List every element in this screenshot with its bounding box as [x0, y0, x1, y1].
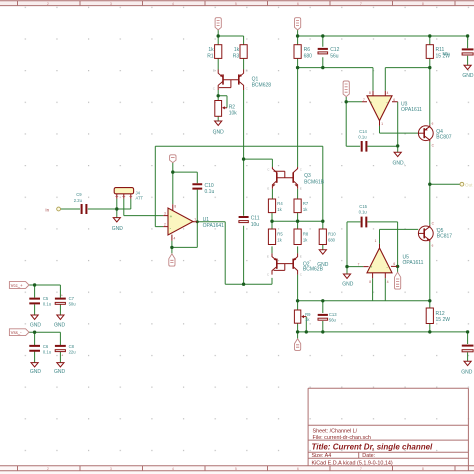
wire C15 right column to U5 inverting input	[367, 222, 397, 272]
svg-text:1k: 1k	[234, 47, 240, 53]
wire C16 bottom stub	[467, 56, 469, 65]
junction dots supply mid rail	[296, 66, 432, 69]
svg-text:C6: C6	[43, 344, 49, 349]
wire R2 bottom to GND	[217, 116, 219, 121]
svg-text:GND: GND	[54, 322, 66, 328]
svg-text:R9: R9	[305, 312, 311, 317]
svg-text:KiCad E.D.A kicad (5.1.9-0-10: KiCad E.D.A kicad (5.1.9-0-10,14)	[312, 461, 393, 467]
capacitor C17 electrolytic	[462, 346, 474, 352]
svg-text:GND: GND	[462, 73, 474, 79]
wire Q3 right collector column	[297, 68, 299, 167]
wire Q1B collector long column through C11	[243, 90, 245, 284]
svg-text:2: 2	[47, 2, 49, 6]
svg-text:C7: C7	[69, 296, 75, 301]
svg-text:GND: GND	[30, 322, 42, 328]
svg-text:1: 1	[194, 218, 196, 222]
sheet border right inner line (title block area)	[467, 388, 469, 471]
svg-text:BCM62B: BCM62B	[303, 267, 324, 273]
wire Q3 bases branch	[244, 159, 273, 167]
wire C6 bottom to GND	[34, 352, 36, 363]
svg-text:OPA1641: OPA1641	[203, 223, 225, 229]
SECTION:WIRES	[29, 30, 470, 363]
svg-text:4: 4	[172, 467, 174, 471]
svg-text:BC817: BC817	[437, 233, 453, 239]
SECTION:TITLEBLOCK	[308, 388, 468, 466]
resistor R7	[294, 199, 309, 213]
title block row line above Sheet	[308, 424, 468, 426]
capacitor C16 electrolytic	[443, 49, 474, 56]
title block row line above Title	[308, 439, 468, 441]
capacitor C12 electrolytic	[318, 47, 340, 59]
svg-text:R6: R6	[304, 47, 311, 53]
wire bottom rail label stub	[297, 332, 299, 339]
wire U3 inverting input column	[397, 102, 399, 147]
resistor R4	[268, 199, 283, 213]
svg-text:GND: GND	[54, 369, 66, 375]
svg-text:7: 7	[358, 263, 360, 267]
capacitor C14	[358, 129, 367, 152]
resistor R11	[426, 45, 450, 60]
resistor R5	[268, 229, 283, 245]
svg-text:680: 680	[328, 237, 336, 242]
junction dot COut node	[428, 183, 431, 186]
wire R10 top stub	[322, 221, 324, 229]
title block row line above KiCad	[308, 457, 468, 459]
sheet border top inner line	[0, 5, 474, 7]
transistor Q1 dual PNP pair	[213, 69, 271, 91]
svg-text:C14: C14	[359, 129, 367, 134]
svg-text:0.1u: 0.1u	[205, 189, 215, 195]
ground below C6	[30, 363, 42, 376]
wire C10 decoupling column	[196, 172, 198, 247]
svg-text:C8: C8	[69, 344, 75, 349]
wire V+ top rail left segment	[218, 30, 243, 45]
svg-text:56u: 56u	[329, 318, 337, 323]
junction dots VAS mid rail	[242, 220, 325, 286]
wire C7 bottom to GND	[59, 304, 61, 315]
svg-text:56u: 56u	[330, 53, 339, 59]
junction dot mirror node	[217, 94, 246, 161]
wire R9 bottom stub	[297, 323, 299, 332]
svg-text:8: 8	[174, 204, 176, 208]
svg-text:C11: C11	[251, 216, 260, 222]
svg-text:R4: R4	[277, 201, 283, 206]
ground below C16	[462, 65, 474, 79]
svg-text:4: 4	[172, 2, 174, 6]
wire R6/C12 bottom node to U3 V+ supply	[298, 57, 373, 91]
wire R10 bottom to GND	[322, 245, 324, 250]
svg-text:R5: R5	[277, 231, 283, 236]
wire C5 bottom to GND	[34, 304, 36, 315]
svg-text:2: 2	[164, 222, 166, 226]
svg-text:R8: R8	[303, 231, 309, 236]
svg-text:C10: C10	[205, 183, 214, 189]
resistor R10	[319, 229, 336, 245]
sheet border bottom ticks	[18, 466, 456, 471]
wire J4 pin2 to U1 noninverting input	[124, 199, 164, 216]
svg-text:8: 8	[422, 2, 424, 6]
svg-text:15 2W: 15 2W	[436, 317, 451, 323]
capacitor C6	[29, 344, 51, 355]
svg-text:Vcc_+: Vcc_+	[11, 283, 24, 288]
svg-text:Title: Current Dr, single chan: Title: Current Dr, single channel	[312, 442, 434, 451]
svg-text:Size: A4: Size: A4	[312, 453, 332, 459]
power label above U3 input	[343, 81, 349, 97]
op-amp U3 OPA1611	[362, 91, 422, 126]
svg-text:0.1u: 0.1u	[43, 350, 52, 355]
svg-text:GND: GND	[213, 130, 225, 136]
svg-text:GND.: GND.	[393, 160, 406, 166]
svg-text:10u: 10u	[251, 222, 260, 228]
ground below R2	[213, 121, 225, 136]
resistor R6	[294, 45, 312, 60]
svg-text:8: 8	[369, 280, 371, 284]
power label below U5 inverting input	[395, 272, 401, 289]
wire VAS mid rail y=221	[272, 220, 323, 222]
wire R9 top stub	[297, 301, 299, 310]
svg-text:E: E	[300, 255, 302, 259]
svg-text:R10: R10	[328, 231, 336, 236]
svg-text:5: 5	[235, 467, 237, 471]
wire Vcc_+ label to caps	[29, 285, 61, 298]
svg-text:R1: R1	[207, 53, 214, 59]
ground below C7	[54, 315, 66, 328]
wire Q1A collector to R2 node	[218, 90, 227, 108]
svg-text:3: 3	[110, 467, 112, 471]
power label P2 (vertical capsule above R6)	[295, 18, 301, 30]
potentiometer R2	[215, 101, 237, 117]
wire Q5 emitter column	[429, 242, 431, 301]
wire C8 bottom to GND	[59, 352, 61, 363]
wire U5 supply drops	[373, 278, 386, 301]
wire output rail y=300.8	[298, 300, 430, 302]
svg-text:GND: GND	[461, 370, 473, 376]
svg-text:C13: C13	[329, 312, 337, 317]
svg-text:50u: 50u	[443, 51, 451, 56]
svg-text:8: 8	[369, 91, 371, 95]
sheet border bottom outer line	[0, 470, 474, 472]
svg-text:2: 2	[47, 467, 49, 471]
svg-text:+: +	[61, 293, 63, 297]
svg-text:7: 7	[360, 467, 362, 471]
svg-text:10k: 10k	[229, 110, 238, 116]
wire U1 V- supply node	[172, 241, 197, 254]
svg-text:E: E	[246, 69, 248, 73]
svg-text:e: e	[432, 121, 434, 125]
global label Vss_-	[9, 329, 29, 336]
svg-text:Sheet: /Channel L/: Sheet: /Channel L/	[313, 429, 358, 435]
capacitor C15	[359, 204, 368, 227]
capacitor C7 electrolytic	[55, 293, 76, 306]
svg-text:22u: 22u	[69, 350, 77, 355]
resistor R12	[426, 308, 450, 324]
wire J4 pin1 to GND	[116, 199, 118, 218]
sheet border top ticks	[18, 1, 456, 6]
svg-text:+: +	[370, 100, 373, 105]
svg-text:GND: GND	[342, 282, 354, 288]
svg-text:+: +	[170, 214, 173, 219]
wire Q4 collector to COut node	[430, 142, 460, 225]
svg-text:4: 4	[174, 237, 176, 241]
svg-text:7: 7	[363, 98, 365, 102]
ground below C17	[461, 361, 473, 375]
power label below U1 V-	[169, 254, 175, 266]
op-amp U1 OPA1641	[163, 204, 224, 241]
junction dots U3 area	[345, 100, 400, 147]
sheet border bottom inner line	[0, 465, 474, 467]
resistor R3	[233, 45, 247, 60]
transistor Q5 BC817	[418, 222, 452, 248]
wire Vss_- label to caps	[29, 332, 61, 345]
svg-text:Date:: Date:	[362, 453, 375, 459]
ground below C14	[393, 152, 406, 166]
power label below bottom rail	[295, 339, 301, 351]
connector J4 ATT	[114, 188, 143, 201]
svg-text:BCM628: BCM628	[252, 83, 272, 89]
power label P1 (vertical capsule above mirror)	[215, 18, 221, 30]
connector pin In	[45, 207, 60, 212]
svg-text:+: +	[370, 264, 373, 269]
svg-text:Out: Out	[465, 182, 473, 187]
resistor R8	[294, 229, 309, 245]
junction dots Vcc Vss caps	[33, 283, 36, 334]
wire U1 output to driver node	[197, 222, 272, 285]
wire feedback net y=146	[155, 146, 322, 226]
svg-text:R3: R3	[233, 53, 240, 59]
potentiometer R9	[294, 310, 311, 323]
wire C13 top stub	[322, 301, 324, 313]
resistor R1	[207, 45, 222, 60]
wire Q3B emitter to R7	[297, 189, 299, 199]
svg-text:6: 6	[393, 98, 395, 102]
wire U3 output to Q4 base	[380, 126, 419, 133]
svg-text:2.2u: 2.2u	[74, 198, 83, 203]
svg-text:0.1u: 0.1u	[358, 134, 367, 139]
wire V+ top rail right segment	[298, 30, 468, 49]
svg-text:Q3: Q3	[304, 173, 311, 179]
svg-text:7: 7	[360, 2, 362, 6]
svg-text:680: 680	[304, 53, 313, 59]
title block comment box top line	[308, 387, 468, 389]
junction dots bottom rail	[296, 330, 469, 333]
wire U5 left input to GND node	[347, 267, 363, 274]
wire Q2B collector to output rail	[297, 275, 299, 301]
ground left of U5	[342, 274, 354, 288]
wire bottom rail y=331.9	[298, 331, 468, 333]
svg-text:E: E	[267, 255, 269, 259]
svg-text:R7: R7	[303, 201, 309, 206]
svg-text:GND: GND	[30, 369, 42, 375]
capacitor C13 electrolytic	[318, 312, 338, 322]
transistor Q2 dual PNP pair	[267, 253, 324, 276]
wire R9 wiper to bottom rail	[305, 317, 307, 332]
sheet border top margin band	[0, 0, 474, 6]
svg-text:E: E	[267, 187, 269, 191]
transistor Q4 BC807	[418, 121, 452, 147]
op-amp U5 OPA1611	[358, 239, 424, 284]
svg-text:50u: 50u	[69, 301, 77, 306]
svg-text:4: 4	[387, 280, 389, 284]
capacitor C5	[29, 296, 51, 307]
junction dots U1 supplies	[170, 170, 199, 249]
svg-text:E: E	[300, 187, 302, 191]
svg-text:1: 1	[381, 122, 383, 126]
svg-text:ATT: ATT	[136, 196, 144, 201]
wire U5 output to Q5 base	[380, 229, 419, 243]
svg-text:C15: C15	[359, 204, 367, 209]
transistor Q3 dual NPN pair	[267, 167, 324, 191]
svg-text:0.1u: 0.1u	[359, 210, 368, 215]
svg-text:C5: C5	[43, 296, 49, 301]
ground below C8	[54, 363, 66, 376]
wire input from In connector to C9	[60, 208, 80, 210]
svg-text:BC807: BC807	[436, 134, 452, 140]
svg-text:C9: C9	[76, 192, 82, 197]
wire Q3 emitter to R4	[271, 189, 273, 199]
wire C9 to J4 pin3	[88, 208, 131, 210]
svg-text:1: 1	[375, 239, 377, 243]
capacitor C10	[192, 183, 214, 195]
svg-text:1k: 1k	[208, 47, 214, 53]
wire J4 pin3 drop	[130, 199, 132, 209]
wire R4-R5 column	[271, 213, 273, 229]
capacitor C8 electrolytic	[55, 344, 76, 358]
svg-text:6: 6	[393, 262, 395, 266]
svg-text:8: 8	[422, 467, 424, 471]
wire C17 column	[467, 332, 469, 361]
svg-text:Vss_-: Vss_-	[11, 330, 23, 335]
wire C15 left column	[347, 222, 360, 267]
wire C14 right to GND node	[368, 146, 398, 152]
svg-text:OPA1611: OPA1611	[403, 260, 424, 266]
capacitor C9	[74, 192, 87, 214]
power label above U1 V+	[170, 155, 176, 163]
svg-text:C12: C12	[330, 47, 339, 53]
wire U3 V- supply to R11 bottom node	[385, 58, 430, 124]
wire R5 bottom to Q2A emitter	[271, 246, 273, 253]
svg-text:3: 3	[164, 211, 166, 215]
global label Vcc_+	[9, 282, 29, 289]
svg-text:3: 3	[110, 2, 112, 6]
SECTION:COMPONENTS	[207, 18, 474, 277]
junction dots U5 area	[345, 265, 399, 269]
wire C13 bottom stub	[322, 321, 324, 332]
svg-text:BCM61B: BCM61B	[304, 179, 325, 185]
ground below R10	[317, 250, 329, 268]
svg-text:File: current-dr-chan.sch: File: current-dr-chan.sch	[313, 435, 371, 441]
svg-text:4: 4	[387, 91, 389, 95]
capacitor C11 electrolytic	[239, 216, 260, 228]
svg-text:e: e	[432, 244, 434, 248]
wire R7-R8 column	[297, 213, 299, 229]
ground below J4	[112, 218, 124, 232]
sheet border top outer line	[0, 0, 474, 2]
title block row line above Size	[308, 451, 468, 453]
svg-text:OPA1611: OPA1611	[401, 107, 422, 113]
junction dots output rail	[296, 299, 432, 302]
title block outline left edge	[307, 388, 309, 466]
wire R8 bottom to Q2B emitter	[297, 246, 299, 253]
wire U1 V+ supply node	[173, 163, 198, 205]
svg-text:GND: GND	[112, 226, 124, 232]
wire U3 noninverting input net	[346, 97, 362, 147]
svg-text:5: 5	[235, 2, 237, 6]
svg-text:0.1u: 0.1u	[43, 301, 52, 306]
wire R3 bottom to Q1B emitter	[243, 58, 245, 69]
wire R12 column	[429, 301, 431, 332]
ground below C5	[30, 315, 42, 328]
svg-text:6: 6	[297, 2, 299, 6]
svg-text:R12: R12	[436, 311, 445, 317]
title block divider Size/Date	[358, 452, 360, 458]
svg-text:6: 6	[297, 467, 299, 471]
svg-text:In: In	[45, 207, 49, 212]
junction dots top rails	[217, 34, 470, 37]
svg-text:E: E	[213, 69, 215, 73]
svg-text:+: +	[61, 354, 63, 358]
connector pin COut	[460, 182, 473, 187]
junction dot J4 input	[115, 207, 118, 210]
wire R1 bottom to Q1A emitter	[217, 58, 219, 69]
